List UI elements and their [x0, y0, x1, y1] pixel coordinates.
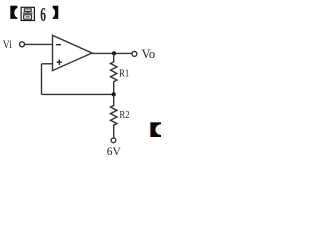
- input terminal circle (Vi): [20, 42, 25, 47]
- svg-text:6: 6: [40, 2, 46, 25]
- partial next-figure bracket 【 at right edge: [150, 122, 167, 137]
- svg-text:Vo: Vo: [142, 47, 156, 61]
- output node junction dot: [112, 51, 116, 55]
- resistor R1: [111, 53, 117, 94]
- op-amp U1 triangle: [53, 35, 93, 70]
- svg-text:6V: 6V: [107, 146, 122, 158]
- resistor R2: [111, 94, 117, 137]
- feedback wire horizontal: [42, 93, 114, 95]
- output terminal circle (Vo): [132, 51, 137, 56]
- 6V supply terminal circle: [111, 138, 116, 143]
- op-amp minus sign: [56, 44, 61, 46]
- svg-text:Vi: Vi: [3, 38, 12, 51]
- figure label bracket 】: [49, 6, 58, 19]
- figure label character 圖: [21, 7, 34, 20]
- wire to op-amp non-inverting input: [42, 63, 53, 65]
- feedback node junction dot: [112, 92, 116, 96]
- feedback wire vertical: [41, 64, 43, 95]
- op-amp plus sign: [57, 60, 62, 65]
- output wire: [92, 52, 132, 54]
- svg-text:R1: R1: [119, 68, 129, 80]
- svg-text:R2: R2: [119, 109, 129, 121]
- figure label bracket 【: [10, 6, 21, 19]
- wire Vi to op-amp inverting input: [25, 43, 53, 45]
